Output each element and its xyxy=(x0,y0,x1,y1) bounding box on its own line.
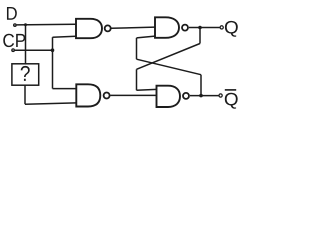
input terminal D xyxy=(13,23,17,27)
NAND gate G3 xyxy=(155,17,179,38)
wire box output down xyxy=(24,85,26,104)
wire to gate G4 upper input xyxy=(137,88,157,91)
label CP xyxy=(3,34,14,47)
input terminal CP xyxy=(11,48,15,52)
wire Qbar feedback diagonal to left rail xyxy=(137,59,202,74)
wire left rail up to G3 xyxy=(136,38,138,59)
wire G4 output to Qbar xyxy=(190,95,219,97)
wire CP vertical branch xyxy=(52,37,54,88)
wire to gate G3 lower input xyxy=(137,36,156,38)
wire Q feedback diagonal to left rail xyxy=(137,44,201,70)
bubble G1 xyxy=(105,25,111,31)
junction dot Qbar feedback xyxy=(199,94,203,98)
output terminal Q xyxy=(220,26,223,29)
wire G3 output to Q xyxy=(189,27,220,29)
NAND gate G1 xyxy=(76,19,102,38)
junction dot Q feedback xyxy=(198,26,202,30)
bubble G2 xyxy=(104,93,110,99)
label Q xyxy=(225,21,238,37)
bubble G3 xyxy=(182,25,188,31)
bubble G4 xyxy=(183,93,189,99)
wire G2 output to gate G4 lower input xyxy=(110,94,156,96)
wire CP to gate G1 lower input xyxy=(53,35,77,38)
wire D to gate G1 upper input xyxy=(17,23,76,26)
wire G1 output to gate G3 xyxy=(112,27,156,28)
label Qbar xyxy=(225,93,238,109)
overbar of Qbar xyxy=(225,89,236,91)
wire left rail down to G4 xyxy=(136,69,138,90)
NAND gate G2 xyxy=(76,84,100,106)
junction dot CP xyxy=(51,48,55,52)
wire box output to gate G2 lower input xyxy=(25,103,76,104)
inverter box "?" xyxy=(12,64,39,85)
wire Qbar feedback vertical xyxy=(200,75,202,96)
junction dot D branch xyxy=(24,23,27,26)
wire CP to gate G2 upper input xyxy=(53,88,77,90)
wire D down to inverter box xyxy=(25,25,27,64)
wire Q feedback vertical xyxy=(199,28,201,44)
NAND gate G4 xyxy=(157,86,181,107)
label D xyxy=(7,7,17,20)
output terminal Qbar xyxy=(219,94,222,97)
wire CP to junction xyxy=(15,49,53,51)
